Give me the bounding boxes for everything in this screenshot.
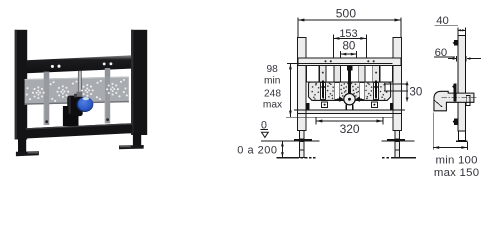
hanger bolt right [375, 81, 377, 98]
foot pad right (below plate) [371, 102, 377, 108]
perforated mounting plate [25, 77, 129, 105]
corner bracket right [390, 103, 393, 109]
40 leader line [435, 25, 459, 27]
drain elbow + pipe (side view) [434, 91, 474, 111]
elbow seam [434, 100, 442, 107]
strap right 2 [358, 66, 365, 83]
upper rail [298, 58, 401, 66]
left leg (front view) [299, 130, 304, 139]
dim 30 [406, 82, 408, 102]
bolt mark upper [454, 40, 458, 45]
foot bar right [387, 139, 405, 141]
rail screw dots [324, 60, 326, 62]
dim 98min/248max [289, 64, 291, 117]
dim 320 [316, 120, 383, 122]
floor line right [382, 140, 415, 142]
pipe centerline [442, 97, 478, 99]
right post (front view) [393, 37, 402, 130]
dim 40 extension lines [457, 28, 459, 36]
bolt mark lower [454, 118, 458, 125]
svg-text:500: 500 [336, 7, 357, 21]
white box right under rail [380, 66, 392, 83]
dim 60 [448, 58, 456, 60]
foot (side view) [458, 131, 465, 141]
min/max extension lines [432, 113, 434, 150]
valve stem [76, 92, 82, 97]
plate slot left 1 [321, 83, 326, 100]
lower crossbar [26, 123, 133, 138]
leg below floor right [395, 142, 400, 158]
strap left 2 [334, 66, 341, 83]
dim 0 a 200 [281, 142, 283, 157]
mounting plate (front view) [309, 82, 391, 100]
top crossbar [27, 55, 132, 73]
svg-text:max 150: max 150 [434, 167, 479, 179]
drain outlet circle [344, 94, 355, 105]
left leg [18, 139, 26, 154]
right leg [133, 133, 141, 146]
center rod [78, 71, 81, 95]
svg-text:98: 98 [267, 64, 279, 75]
svg-text:30: 30 [409, 86, 422, 99]
dim 153 [333, 37, 366, 39]
crossbar holes [51, 65, 54, 68]
30-dim bracket box [385, 84, 391, 91]
white box left under rail [307, 66, 319, 83]
lower rail bottom line [286, 116, 393, 118]
pipe bracket [466, 95, 470, 105]
outlet arrows [339, 96, 343, 102]
svg-text:248: 248 [264, 89, 281, 100]
valve body [67, 96, 82, 117]
drain pipe below circle [345, 104, 347, 109]
plate perforation hole rings [26, 79, 128, 102]
dim 320 extension lines [315, 117, 317, 124]
foot bar left [294, 139, 312, 141]
left post [15, 30, 28, 140]
blue knob [77, 97, 94, 112]
plate perforation dots (front view) [311, 82, 387, 99]
left foot [16, 151, 39, 156]
center rod (front view) [348, 66, 351, 94]
svg-text:0 a 200: 0 a 200 [237, 145, 277, 157]
right leg (front view) [395, 130, 400, 139]
floor line left [261, 140, 320, 142]
dim 80 extension lines [340, 51, 342, 58]
dim 500 extension lines [297, 17, 299, 37]
svg-text:80: 80 [342, 40, 355, 53]
foot base plate [456, 141, 468, 143]
dim min100/max150 [433, 147, 467, 149]
dim 500 [298, 19, 401, 21]
svg-text:min: min [264, 76, 280, 87]
svg-text:max: max [263, 99, 282, 110]
lower floor line left (dash-dot) [277, 157, 300, 159]
lower rail [294, 109, 405, 110]
dim 40 [458, 29, 466, 31]
dim 80 [341, 53, 357, 55]
right post [131, 30, 147, 135]
dim 153 extension lines [332, 35, 334, 58]
foot pad left (below plate) [322, 102, 328, 108]
hanger bolt left [322, 81, 324, 98]
plate slot right 2 [360, 83, 365, 100]
hanger strap right (bar to below plate) [105, 68, 110, 78]
60 leader line [434, 56, 455, 58]
post (side view) [458, 36, 466, 131]
leg below floor left [299, 142, 304, 158]
right foot [119, 145, 144, 149]
plate slot right 1 [373, 83, 378, 100]
plate slot left 2 [335, 83, 340, 100]
bolt mark middle (in front of pipe) [454, 83, 457, 101]
corner bracket left [306, 103, 309, 109]
30-dim bracket lines [386, 83, 408, 85]
strap left 1 (below rail) [320, 66, 327, 83]
left post (front view) [297, 37, 306, 130]
svg-text:320: 320 [340, 122, 360, 136]
svg-text:153: 153 [339, 28, 357, 40]
drain pipe below valve [63, 106, 79, 126]
hanger strap left (bar to below plate) [44, 72, 50, 80]
rail mid line / 98 top tick [287, 63, 392, 65]
lower floor line right (dash-dot) [382, 157, 389, 159]
strap right 1 [373, 66, 380, 83]
svg-text:min 100: min 100 [435, 155, 477, 167]
